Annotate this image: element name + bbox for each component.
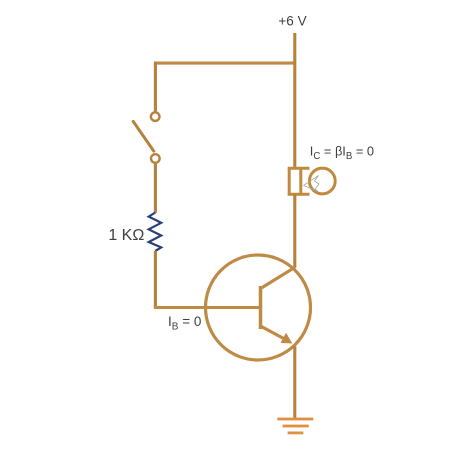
svg-text:IC = βIB = 0: IC = βIB = 0 bbox=[310, 144, 374, 163]
svg-text:IB = 0: IB = 0 bbox=[168, 314, 201, 333]
svg-text:1 KΩ: 1 KΩ bbox=[108, 227, 144, 244]
lamp DS1 filament bbox=[304, 176, 320, 192]
node I_C = beta I_B = 0 label bbox=[310, 144, 374, 163]
switch S1 bottom contact bbox=[151, 154, 160, 163]
ground symbol bbox=[277, 418, 313, 435]
wire: top horizontal rail bbox=[154, 62, 296, 65]
node I_B = 0 label bbox=[168, 314, 201, 333]
wire: left vertical to switch bbox=[154, 62, 157, 112]
transistor Q1 emitter stroke with arrow bbox=[261, 326, 293, 344]
wire: +6V vertical drop to lamp bbox=[293, 33, 296, 169]
svg-text:+6 V: +6 V bbox=[278, 14, 306, 29]
node +6 V label bbox=[278, 14, 306, 29]
wire: base horizontal bbox=[154, 306, 262, 309]
switch S1 arm (open) bbox=[133, 121, 154, 151]
transistor Q1 base bar bbox=[259, 286, 263, 329]
resistor R1 1 KOhm zigzag bbox=[149, 213, 162, 252]
switch S1 top contact bbox=[151, 112, 160, 121]
transistor Q1 collector stroke bbox=[261, 267, 295, 288]
resistor R1 value label 1 KOhm bbox=[108, 227, 144, 244]
wire: lamp to collector bbox=[293, 194, 296, 268]
wire: resistor to base corner bbox=[154, 251, 157, 309]
transistor Q1 body circle bbox=[206, 255, 311, 360]
lamp DS1 base rectangle bbox=[288, 168, 310, 194]
wire: switch to resistor bbox=[154, 164, 157, 213]
lamp DS1 bulb circle bbox=[309, 168, 335, 194]
wire: emitter to ground bbox=[293, 347, 296, 420]
